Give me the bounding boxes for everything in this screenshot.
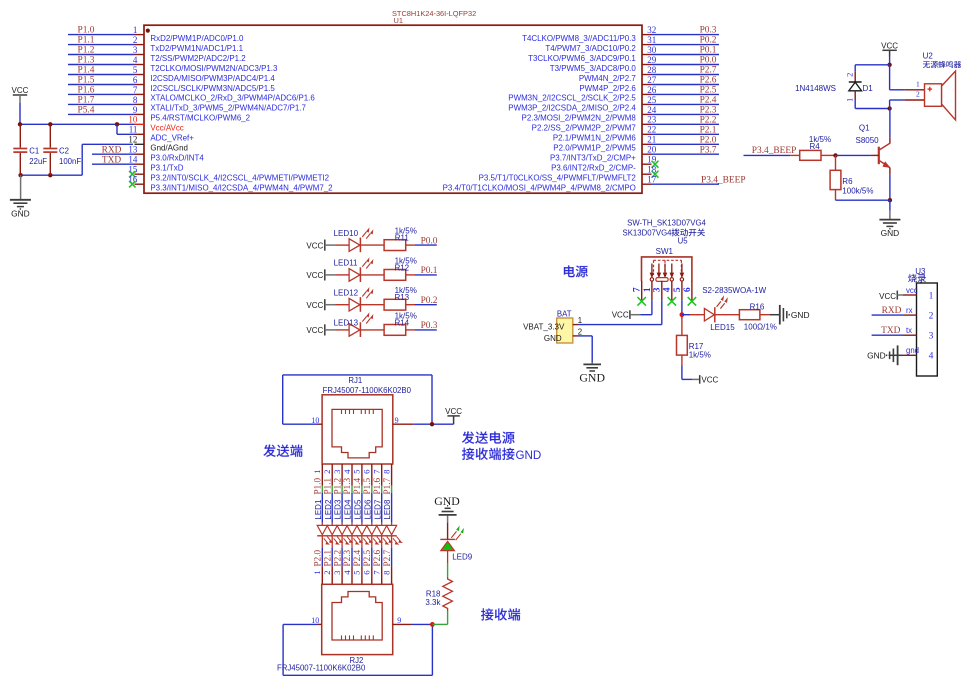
switch SW1 pin 4 stub — [671, 281, 673, 300]
mcu U1 pin 23 stub — [642, 123, 652, 125]
svg-text:P5.4: P5.4 — [78, 106, 95, 116]
wire R4 to Q1 base — [836, 154, 871, 156]
wire Q1 emitter to ground — [889, 168, 891, 175]
mcu U1 pin 20 stub — [642, 153, 652, 155]
svg-text:P2.0: P2.0 — [700, 135, 717, 145]
svg-text:P1.0: P1.0 — [313, 478, 323, 495]
svg-text:I2CSCL/SCLK/PWM3N/ADC5/P1.5: I2CSCL/SCLK/PWM3N/ADC5/P1.5 — [150, 84, 275, 93]
svg-text:P1.4: P1.4 — [352, 478, 362, 495]
annotation: receive side connect GND — [462, 448, 474, 460]
junction RJ1 pin 9 / VCC — [430, 422, 434, 426]
svg-text:9: 9 — [397, 616, 401, 625]
wire pin 11 to VCC rail — [116, 124, 118, 134]
wire RJ2 pin 10 loop — [283, 623, 318, 625]
wire net P5.4 pin 9 — [68, 113, 135, 115]
svg-text:C2: C2 — [59, 147, 69, 156]
svg-text:10: 10 — [128, 115, 138, 125]
svg-text:2: 2 — [916, 90, 920, 99]
transistor Q1 S8050 — [889, 137, 891, 143]
switch SW1 body — [642, 257, 692, 281]
mcu U1 pin 31 stub — [642, 44, 652, 46]
header U3 body — [917, 283, 938, 376]
connector RJ2 pin 9 stub — [393, 623, 411, 625]
led LED2 — [331, 523, 333, 526]
wire top rail to D1 — [855, 64, 889, 66]
svg-text:1N4148WS: 1N4148WS — [795, 84, 836, 93]
svg-text:1: 1 — [643, 287, 653, 292]
svg-text:GND: GND — [11, 208, 30, 218]
wire R17 to VCC — [681, 365, 683, 379]
svg-text:P3.1/TxD: P3.1/TxD — [150, 164, 183, 173]
svg-text:FRJ45007-1100K6K02B0: FRJ45007-1100K6K02B0 — [323, 386, 412, 395]
svg-text:LED6: LED6 — [363, 499, 372, 520]
transistor Q1 base stub — [871, 154, 879, 156]
led LED6 — [371, 523, 373, 526]
mcu U1 pin 32 stub — [642, 34, 652, 36]
svg-text:P1.5: P1.5 — [362, 478, 372, 495]
svg-text:3: 3 — [929, 332, 934, 342]
svg-text:RXD: RXD — [102, 145, 122, 155]
svg-text:25: 25 — [647, 95, 657, 105]
svg-text:TXD: TXD — [881, 326, 900, 336]
svg-text:R13: R13 — [394, 293, 409, 302]
switch SW1 pin 3 stub — [661, 281, 663, 300]
connector RJ2 pin 2 stub (column) — [331, 566, 333, 584]
svg-text:PWM3N_2/I2CSCL_2/SCLK_2/P2.5: PWM3N_2/I2CSCL_2/SCLK_2/P2.5 — [508, 94, 636, 103]
svg-text:T3CLKO/PWM6_3/ADC9/P0.1: T3CLKO/PWM6_3/ADC9/P0.1 — [528, 54, 636, 63]
wire BAT pin 2 to ground — [578, 335, 593, 337]
header U3 pin 3 stub — [903, 334, 917, 336]
led LED11 — [336, 274, 350, 276]
connector RJ1 pin 7 stub (column) — [381, 464, 383, 486]
svg-text:6: 6 — [133, 75, 138, 85]
connector RJ1 pin 8 stub (column) — [391, 464, 393, 486]
svg-text:100nF: 100nF — [59, 157, 81, 166]
mcu U1 pin 30 stub — [642, 54, 652, 56]
svg-text:R6: R6 — [842, 177, 853, 186]
svg-text:P2.0/PWM1P_2/PWM5: P2.0/PWM1P_2/PWM5 — [553, 144, 636, 153]
svg-text:GND: GND — [434, 494, 460, 508]
mcu U1 pin 27 stub — [642, 84, 652, 86]
svg-text:T3/PWM5_3/ADC8/P0.0: T3/PWM5_3/ADC8/P0.0 — [550, 64, 637, 73]
mcu U1 pin 7 stub — [135, 93, 145, 95]
svg-text:100k/5%: 100k/5% — [842, 187, 873, 196]
wire net RXD pin 13 — [92, 153, 135, 155]
ground (buzzer) — [889, 211, 891, 220]
svg-text:VCC: VCC — [879, 292, 896, 301]
svg-text:VCC: VCC — [306, 241, 323, 250]
svg-text:LED13: LED13 — [334, 319, 359, 328]
wire net P2.0 pin 21 — [652, 143, 720, 145]
svg-text:31: 31 — [647, 35, 656, 45]
svg-text:100Ω/1%: 100Ω/1% — [744, 323, 777, 332]
svg-text:VCC: VCC — [306, 301, 323, 310]
mcu U1 pin 10 stub — [135, 123, 145, 125]
mcu U1 pin 5 stub — [135, 74, 145, 76]
svg-text:LED11: LED11 — [334, 259, 358, 268]
mcu U1 pin 14 stub — [135, 163, 145, 165]
wire VCC stem — [19, 95, 21, 103]
svg-text:PWM4P_2/P2.6: PWM4P_2/P2.6 — [579, 84, 636, 93]
svg-text:14: 14 — [128, 155, 138, 165]
annotation: transmit power — [462, 431, 474, 443]
wire buzzer pin 2 to bottom rail — [890, 99, 905, 101]
no-connect flag pin 18 — [652, 171, 659, 178]
mcu U1 pin 4 stub — [135, 64, 145, 66]
svg-text:1: 1 — [578, 316, 582, 325]
svg-text:8: 8 — [133, 95, 138, 105]
annotation: transmit side — [263, 444, 275, 456]
wire net P2.3 pin 24 — [652, 113, 720, 115]
wire net P1.7 pin 8 — [68, 103, 135, 105]
mcu U1 pin 2 stub — [135, 44, 145, 46]
svg-text:LED12: LED12 — [334, 289, 359, 298]
buzzer U2 pin 1 stub — [904, 89, 924, 91]
svg-text:P3.0/RxD/INT4: P3.0/RxD/INT4 — [150, 154, 204, 163]
junction gnd/C1 — [18, 173, 22, 177]
svg-text:32: 32 — [647, 25, 656, 35]
svg-text:20: 20 — [647, 145, 657, 155]
svg-text:P2.5: P2.5 — [700, 86, 717, 96]
connector RJ1 pin 1 stub (column) — [321, 464, 323, 486]
svg-text:P5.4/RST/MCLKO/PWM6_2: P5.4/RST/MCLKO/PWM6_2 — [150, 114, 250, 123]
no-connect flag SW1 pin 7 — [637, 297, 646, 306]
mcu U1 pin 21 stub — [642, 143, 652, 145]
svg-text:P2.1/PWM1N_2/PWM6: P2.1/PWM1N_2/PWM6 — [553, 134, 637, 143]
mcu U1 pin 11 stub — [135, 133, 145, 135]
svg-text:GND: GND — [544, 334, 562, 343]
battery BAT pin 2 stub — [573, 335, 578, 337]
svg-text:7: 7 — [372, 469, 382, 474]
svg-text:1: 1 — [929, 291, 934, 301]
wire column 3 lower — [341, 536, 343, 548]
wire D1 anode to bottom rail — [854, 100, 856, 109]
svg-text:T4/PWM7_3/ADC10/P0.2: T4/PWM7_3/ADC10/P0.2 — [545, 44, 636, 53]
connector RJ1 pin 10 stub — [318, 423, 322, 425]
svg-text:VCC: VCC — [612, 311, 629, 320]
svg-text:ADC_VRef+: ADC_VRef+ — [150, 134, 194, 143]
no-connect flag pin 15 — [129, 171, 136, 178]
wire column 6 lower — [371, 536, 373, 548]
svg-text:4: 4 — [663, 287, 673, 292]
mcu U1 pin 17 stub — [642, 183, 652, 185]
svg-text:P2.4: P2.4 — [700, 96, 717, 106]
svg-text:P2.6: P2.6 — [700, 76, 717, 86]
wire net P0.2 pin 31 — [652, 44, 720, 46]
ground (left rail) — [20, 175, 22, 199]
led LED3 — [341, 523, 343, 526]
wire VCC rail to pin 10 — [20, 123, 135, 125]
buzzer U2 body — [925, 84, 942, 107]
svg-text:U2: U2 — [923, 51, 934, 60]
mcu U1 pin 25 stub — [642, 103, 652, 105]
svg-text:4: 4 — [342, 570, 352, 575]
wire RJ1 pin 10 loop to VCC — [283, 423, 318, 425]
switch SW1 pin 6 stub — [691, 281, 693, 300]
svg-text:4: 4 — [133, 55, 138, 65]
svg-text:RXD: RXD — [882, 306, 902, 316]
connector RJ1 pin 5 stub (column) — [361, 464, 363, 486]
svg-text:R12: R12 — [394, 263, 409, 272]
wire net P3.4_BEEP pin 17 — [652, 183, 720, 185]
wire net P0.0 pin 29 — [652, 64, 720, 66]
svg-text:P0.2: P0.2 — [700, 36, 717, 46]
wire D1 cathode riser — [854, 65, 856, 72]
wire junction to LED15 — [682, 314, 690, 316]
wire net P0.3 pin 32 — [652, 34, 720, 36]
wire net P1.6 pin 7 — [68, 93, 135, 95]
svg-text:RJ1: RJ1 — [348, 376, 362, 385]
switch SW1 pin 7 stub — [641, 281, 643, 300]
svg-text:P2.1: P2.1 — [322, 550, 332, 567]
svg-text:R14: R14 — [394, 318, 409, 327]
svg-text:8: 8 — [381, 570, 391, 575]
led LED13 — [336, 329, 350, 331]
svg-text:P0.3: P0.3 — [700, 26, 717, 36]
mcu U1 pin-1 marker dot — [146, 29, 150, 33]
svg-text:RxD2/PWM1P/ADC0/P1.0: RxD2/PWM1P/ADC0/P1.0 — [150, 34, 244, 43]
svg-text:SK13D07VG4-: SK13D07VG4- — [623, 228, 675, 237]
mcu U1 pin 8 stub — [135, 103, 145, 105]
wire net P2.5 pin 26 — [652, 93, 720, 95]
svg-text:VBAT_3.3V: VBAT_3.3V — [523, 323, 565, 332]
header U3 pin 2 stub — [903, 314, 917, 316]
svg-text:3.3k: 3.3k — [425, 598, 441, 607]
led LED5 — [361, 523, 363, 526]
svg-text:4: 4 — [929, 352, 934, 362]
svg-text:8: 8 — [381, 469, 391, 474]
junction buzzer VCC — [887, 63, 891, 67]
svg-text:P1.3: P1.3 — [78, 56, 95, 66]
svg-text:6: 6 — [362, 469, 372, 474]
led LED4 — [351, 523, 353, 526]
wire column 3 upper — [341, 486, 343, 493]
svg-text:29: 29 — [647, 55, 657, 65]
svg-text:P1.7: P1.7 — [382, 478, 392, 495]
connector RJ2 pin 4 stub (column) — [351, 566, 353, 584]
svg-text:3: 3 — [332, 570, 342, 575]
header U3 pin 4 stub — [903, 354, 917, 356]
connector RJ1 pin 6 stub (column) — [371, 464, 373, 486]
mcu U1 pin 15 stub — [135, 173, 145, 175]
svg-text:P1.1: P1.1 — [322, 478, 332, 495]
led LED12 — [336, 304, 350, 306]
svg-text:13: 13 — [128, 145, 138, 155]
svg-text:R4: R4 — [809, 142, 820, 151]
buzzer U2 pin 2 stub — [904, 99, 924, 101]
svg-text:5: 5 — [133, 65, 138, 75]
wire RJ2 pin 9 to junction — [411, 623, 432, 625]
wire net P1.1 pin 2 — [68, 44, 135, 46]
junction Q1 emitter / R6 — [888, 198, 892, 202]
junction gnd/C2 — [48, 173, 52, 177]
svg-text:FRJ45007-1100K6K02B0: FRJ45007-1100K6K02B0 — [277, 664, 366, 673]
svg-text:P3.4/T0/T1CLKO/MOSI_4/PWM4P_4/: P3.4/T0/T1CLKO/MOSI_4/PWM4P_4/PWM8_2/CMP… — [443, 184, 636, 193]
svg-text:Q1: Q1 — [859, 123, 870, 132]
junction buzzer bottom rail — [887, 106, 891, 110]
led LED9 (green) — [441, 541, 455, 550]
svg-text:P3.7/INT3/TxD_2/CMP+: P3.7/INT3/TxD_2/CMP+ — [550, 154, 636, 163]
svg-text:4: 4 — [342, 469, 352, 474]
wire R18 to LED9 — [447, 563, 449, 577]
capacitor C1 22uF — [19, 124, 21, 147]
svg-text:23: 23 — [647, 115, 657, 125]
svg-text:27: 27 — [647, 75, 657, 85]
wire R11 to net P0.0 — [415, 244, 437, 246]
wire net P2.2 pin 23 — [652, 123, 720, 125]
svg-text:P1.5: P1.5 — [78, 76, 95, 86]
svg-text:LED1: LED1 — [314, 499, 323, 520]
svg-text:7: 7 — [372, 570, 382, 575]
header U3 value (program) — [908, 274, 917, 283]
svg-text:P1.2: P1.2 — [332, 478, 342, 495]
svg-text:7: 7 — [633, 287, 643, 292]
no-connect flag pin 16 — [129, 181, 136, 188]
svg-text:P3.5/T1/T0CLKO/SS_4/PWMFLT/PWM: P3.5/T1/T0CLKO/SS_4/PWMFLT/PWMFLT2 — [479, 174, 637, 183]
svg-text:P2.4: P2.4 — [352, 550, 362, 567]
svg-text:P2.3: P2.3 — [700, 106, 717, 116]
wire net P2.7 pin 28 — [652, 74, 720, 76]
wire junction to R18 — [432, 623, 447, 625]
svg-text:22: 22 — [647, 125, 656, 135]
svg-text:30: 30 — [647, 45, 657, 55]
svg-text:LED2: LED2 — [324, 499, 333, 520]
svg-text:GND: GND — [867, 350, 886, 360]
junction VCC/ADC_VRef+ — [115, 122, 119, 126]
svg-text:T2CLKO/MOSI/PWM2N/ADC3/P1.3: T2CLKO/MOSI/PWM2N/ADC3/P1.3 — [150, 64, 278, 73]
svg-text:VCC: VCC — [701, 375, 718, 384]
connector RJ2 pin 3 stub (column) — [341, 566, 343, 584]
mcu U1 pin 1 stub — [135, 34, 145, 36]
wire net P1.2 pin 3 — [68, 54, 135, 56]
svg-text:P2.7: P2.7 — [700, 66, 717, 76]
connector RJ2 pin 7 stub (column) — [381, 566, 383, 584]
wire column 8 upper — [391, 486, 393, 493]
svg-text:12: 12 — [128, 135, 137, 145]
svg-text:rx: rx — [906, 306, 913, 315]
svg-text:P1.6: P1.6 — [372, 478, 382, 495]
svg-text:U1: U1 — [394, 16, 403, 25]
svg-text:D1: D1 — [863, 84, 874, 93]
svg-text:T2/SS/PWM2P/ADC2/P1.2: T2/SS/PWM2P/ADC2/P1.2 — [150, 54, 246, 63]
capacitor C2 100nF — [49, 124, 51, 147]
mcu U1 pin 28 stub — [642, 74, 652, 76]
ground (U3, bar style) — [889, 354, 903, 356]
svg-text:LED15: LED15 — [710, 323, 735, 332]
svg-text:P1.2: P1.2 — [78, 46, 95, 56]
svg-text:T4CLKO/PWM8_3//ADC11/P0.3: T4CLKO/PWM8_3//ADC11/P0.3 — [522, 34, 636, 43]
svg-text:11: 11 — [129, 125, 138, 135]
svg-text:P3.6/INT2/RxD_2/CMP-: P3.6/INT2/RxD_2/CMP- — [551, 164, 636, 173]
svg-text:TxD2/PWM1N/ADC1/P1.1: TxD2/PWM1N/ADC1/P1.1 — [150, 44, 243, 53]
wire net P1.4 pin 5 — [68, 74, 135, 76]
wire column 2 lower — [331, 536, 333, 548]
connector RJ1 body — [322, 395, 393, 464]
wire R12 to net P0.1 — [415, 274, 437, 276]
connector RJ2 pin 6 stub (column) — [371, 566, 373, 584]
mcu U1 pin 18 stub — [642, 173, 652, 175]
svg-text:3: 3 — [332, 469, 342, 474]
svg-text:GND: GND — [579, 370, 605, 384]
svg-text:P1.4: P1.4 — [78, 66, 95, 76]
mcu U1 STC8H1K24-36I-LQFP32 box — [144, 25, 642, 193]
mcu U1 pin 6 stub — [135, 84, 145, 86]
wire P3.4_BEEP to R4 — [744, 154, 791, 156]
wire net P3.7 pin 20 — [652, 153, 720, 155]
svg-text:LED7: LED7 — [373, 499, 382, 520]
svg-text:P1.0: P1.0 — [78, 26, 95, 36]
svg-text:U5: U5 — [678, 237, 689, 246]
svg-text:28: 28 — [647, 65, 657, 75]
junction R4/R6/base — [833, 153, 837, 157]
svg-text:17: 17 — [647, 175, 657, 185]
svg-text:1: 1 — [844, 98, 854, 102]
svg-text:P2.2/SS_2/PWM2P_2/PWM7: P2.2/SS_2/PWM2P_2/PWM7 — [532, 124, 637, 133]
mcu U1 pin 12 stub — [135, 143, 145, 145]
svg-text:BAT: BAT — [557, 309, 572, 318]
svg-text:LED9: LED9 — [452, 553, 473, 562]
svg-text:P0.1: P0.1 — [700, 46, 717, 56]
svg-text:P3.2/INT0/SCLK_4/I2CSCL_4/PWME: P3.2/INT0/SCLK_4/I2CSCL_4/PWMETI/PWMETI2 — [150, 174, 329, 183]
ground (R16, bar style) — [770, 314, 779, 316]
svg-text:VCC: VCC — [12, 86, 29, 95]
svg-text:9: 9 — [133, 105, 138, 115]
no-connect flag pin 19 — [652, 161, 659, 168]
wire VCC to buzzer pin 1 — [889, 65, 891, 90]
wire net TXD (U3) — [872, 334, 903, 336]
svg-text:tx: tx — [906, 326, 912, 335]
svg-text:Gnd/AGnd: Gnd/AGnd — [150, 144, 188, 153]
wire VCC to SW1 pin 1 — [640, 314, 652, 316]
svg-text:1: 1 — [133, 25, 138, 35]
svg-text:1: 1 — [312, 570, 322, 574]
svg-text:P2.5: P2.5 — [362, 550, 372, 567]
svg-text:2: 2 — [929, 311, 934, 321]
svg-text:P1.3: P1.3 — [342, 478, 352, 495]
transistor Q1 collector wire — [889, 109, 891, 138]
svg-text:SW1: SW1 — [656, 247, 674, 256]
svg-text:P0.2: P0.2 — [421, 296, 438, 306]
svg-text:LED3: LED3 — [334, 499, 343, 520]
svg-text:PWM3P_2/I2CSDA_2/MISO_2/P2.4: PWM3P_2/I2CSDA_2/MISO_2/P2.4 — [508, 104, 636, 113]
svg-text:1: 1 — [312, 469, 322, 473]
mcu U1 pin 3 stub — [135, 54, 145, 56]
wire net P1.5 pin 6 — [68, 84, 135, 86]
svg-text:VCC: VCC — [306, 326, 323, 335]
led LED8 — [391, 523, 393, 526]
led LED10 — [336, 244, 350, 246]
resistor R6 100k/5% — [835, 155, 837, 170]
svg-text:5: 5 — [673, 287, 683, 292]
svg-text:P2.0: P2.0 — [313, 550, 323, 567]
resistor R17 1k/5% — [681, 319, 683, 336]
wire RJ1 pin 9 to VCC — [413, 423, 453, 425]
wire net P2.6 pin 27 — [652, 84, 720, 86]
buzzer U2 value (passive buzzer) — [923, 61, 930, 68]
svg-text:LED10: LED10 — [334, 229, 359, 238]
svg-text:VCC: VCC — [881, 42, 898, 51]
svg-text:9: 9 — [395, 416, 399, 425]
wire column 1 lower — [321, 536, 323, 548]
buzzer U2 plus polarity mark — [928, 88, 933, 90]
no-connect flag SW1 pin 6 — [688, 297, 697, 306]
no-connect flag SW1 pin 4 — [668, 297, 677, 306]
resistor R13 1k/5% — [360, 304, 384, 306]
wire column 8 lower — [391, 536, 393, 548]
svg-text:1: 1 — [916, 80, 920, 89]
wire net P2.1 pin 22 — [652, 133, 720, 135]
junction RJ2 pin 9 / R18 — [430, 622, 435, 627]
